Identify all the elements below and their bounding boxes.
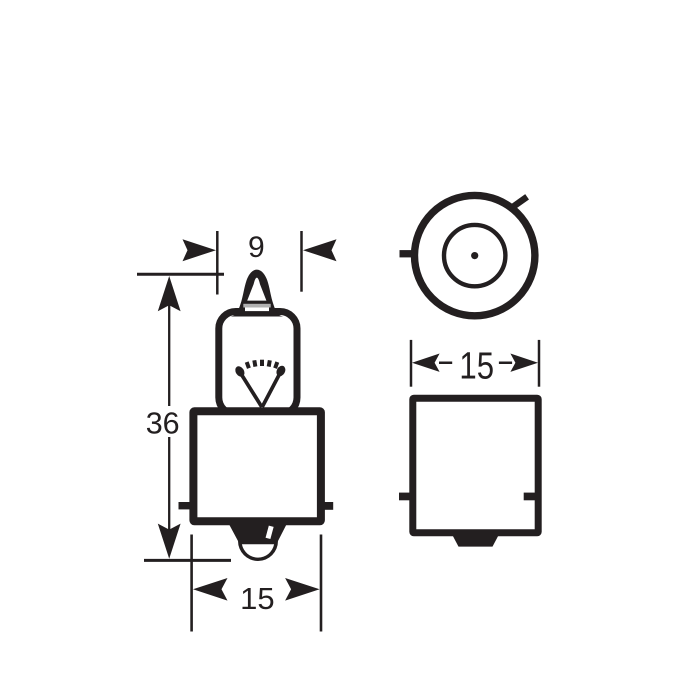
svg-text:15: 15 [459,346,494,388]
svg-text:36: 36 [146,406,180,440]
svg-text:15: 15 [240,581,274,616]
svg-text:9: 9 [248,231,265,264]
